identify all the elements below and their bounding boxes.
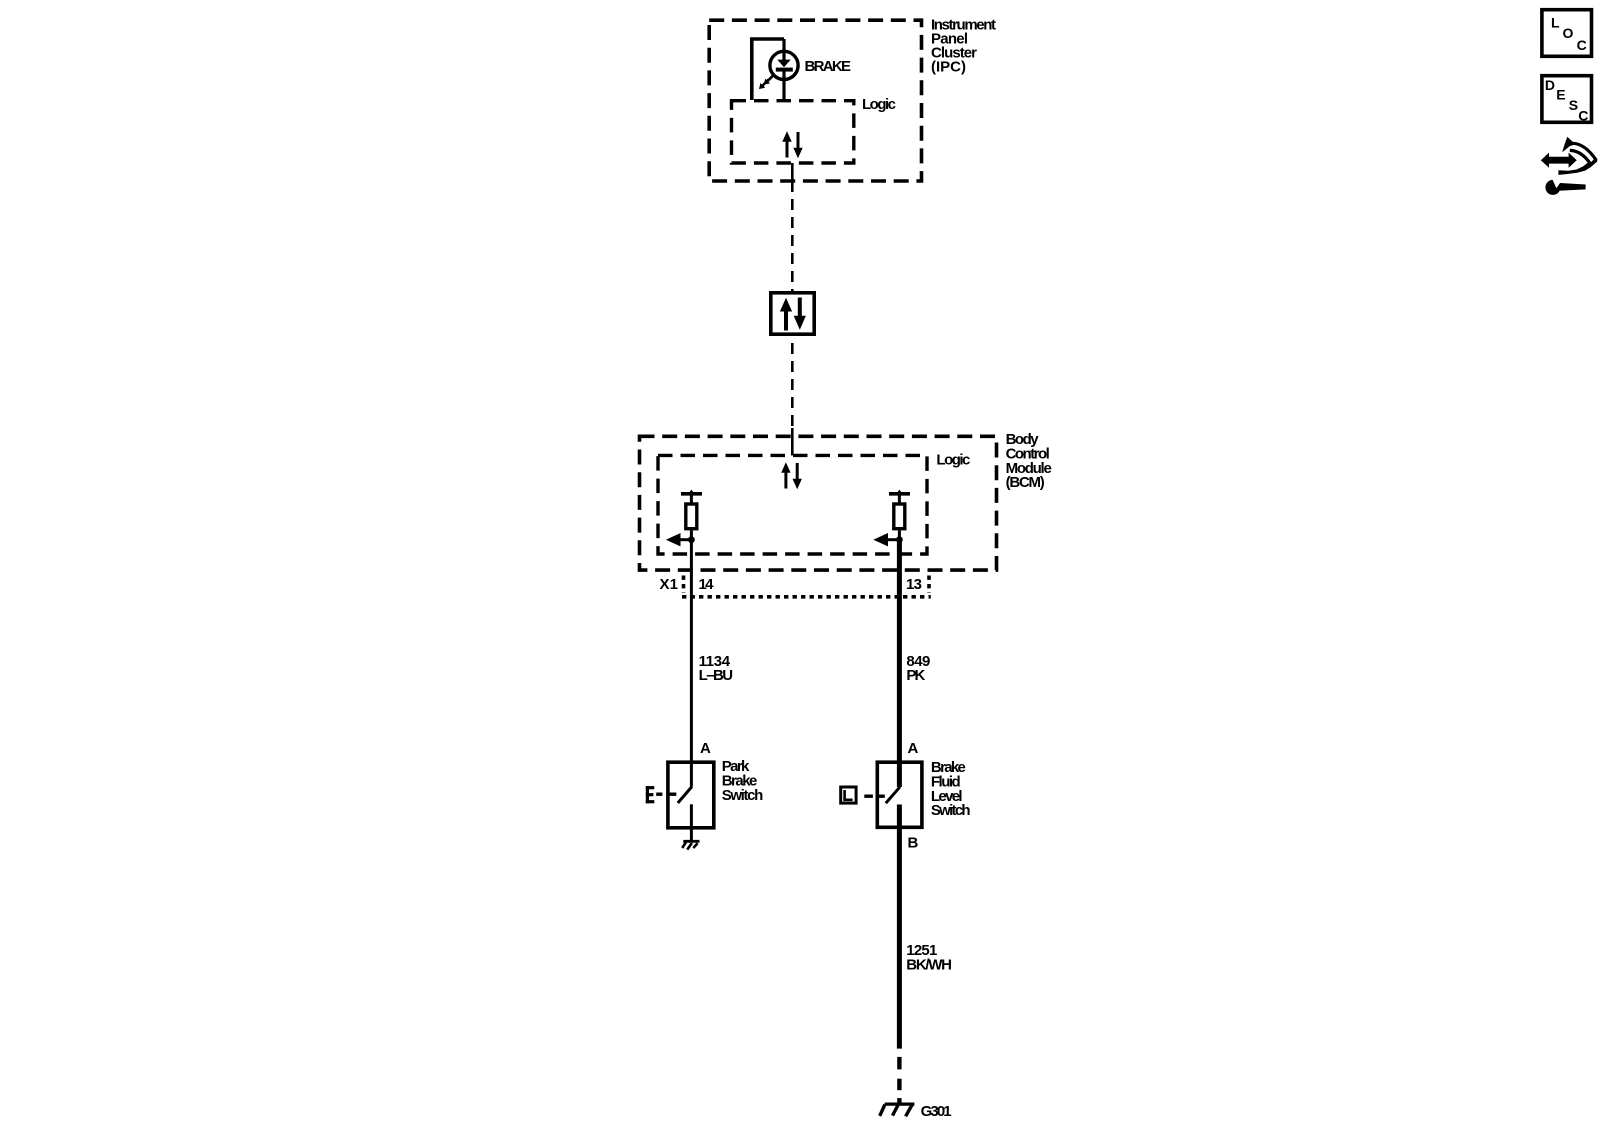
wire resistor to junction (left) [690,530,693,539]
IPC module label [931,17,996,76]
park brake switch bottom contact wire [690,804,693,841]
svg-text:14: 14 [699,576,715,593]
BCM module label [1006,431,1052,491]
svg-text:S: S [1569,97,1578,113]
svg-text:L–BU: L–BU [699,667,734,684]
right pull-up supply T-bar [889,490,910,503]
svg-text:L: L [1551,14,1560,30]
wire 14 inside BCM (left) [690,540,693,787]
resistor (right pull-up) [894,504,905,529]
wire lamp feed loop [752,39,784,100]
left pull-up supply T-bar [681,490,702,503]
brake fluid level switch box [877,762,922,827]
wire circuit 1134 L-BU label [699,653,734,684]
indicator lamp BRAKE (LED) [770,39,798,100]
svg-text:X1: X1 [660,576,679,593]
ground G301 symbol [880,1104,915,1116]
serial data gateway arrows [780,298,806,331]
connector X1 dotted outline [682,576,931,597]
serial data arrows (IPC logic) [782,131,802,158]
navigation icon: wrench [1545,175,1585,195]
svg-text:Switch: Switch [931,802,971,819]
ground symbol (park brake switch) [682,841,699,849]
IPC module dashed box [709,20,921,181]
svg-text:Logic: Logic [862,96,896,113]
L terminal box [841,787,856,803]
svg-text:A: A [908,740,919,757]
svg-text:Switch: Switch [722,787,764,804]
serial data arrows (BCM logic) [781,462,802,489]
wire serial data to BCM [791,336,794,455]
svg-text:O: O [1563,25,1574,41]
svg-text:B: B [908,835,919,852]
park brake switch label [722,758,764,804]
navigation icon: large arrow outline [1558,137,1597,175]
LOC legend box [1542,10,1592,57]
svg-text:PK: PK [906,667,925,684]
svg-text:E: E [1556,87,1565,103]
wire circuit 1251 BK/WH label [906,942,952,973]
svg-text:Logic: Logic [936,452,970,469]
brake fluid level switch label [931,759,971,819]
svg-text:(BCM): (BCM) [1006,474,1045,491]
resistor (left pull-up) [686,504,697,529]
park brake switch E terminal [646,786,655,803]
voltage sense arrow (left) [666,533,692,546]
svg-text:(IPC): (IPC) [931,59,966,76]
park brake switch box [668,762,714,828]
brake fluid level switch bottom contact wire [897,805,902,1049]
wire serial data from IPC [791,163,794,291]
serial data gateway box [771,293,814,334]
IPC Logic dashed box [732,101,854,163]
DESC legend box [1542,76,1592,124]
svg-text:G301: G301 [921,1103,952,1120]
junction node (left) [688,536,695,543]
voltage sense arrow (right) [873,533,899,546]
junction node (right) [896,536,903,543]
BCM Logic dashed box [658,455,927,554]
wire 13 inside BCM (right) [897,540,902,787]
svg-text:C: C [1578,108,1588,124]
svg-text:13: 13 [906,576,922,593]
lamp light-emission arrows [762,75,773,86]
svg-text:BK/WH: BK/WH [906,956,952,973]
BCM module dashed box [640,436,997,570]
svg-text:C: C [1577,37,1587,53]
park brake switch blade [678,787,692,804]
wire resistor to junction (right) [898,530,901,539]
navigation icon: double arrow [1541,153,1577,168]
svg-text:A: A [700,740,711,757]
svg-text:D: D [1545,77,1555,93]
svg-text:BRAKE: BRAKE [805,58,852,75]
brake fluid level switch blade [886,787,900,803]
wire circuit 849 PK label [906,653,930,684]
wire dashes to ground G301 [897,1057,901,1103]
